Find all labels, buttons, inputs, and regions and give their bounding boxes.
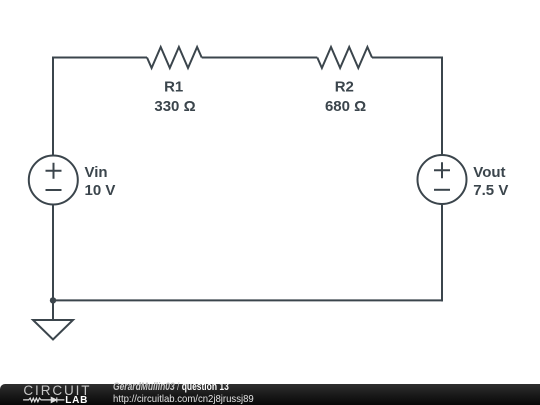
CircuitLab logo wordmark bbox=[23, 384, 91, 398]
ground bbox=[33, 320, 73, 340]
svg-text:7.5 V: 7.5 V bbox=[473, 182, 508, 199]
voltage source V2 Vout bbox=[418, 155, 467, 204]
wire bottom bbox=[53, 299, 443, 301]
wire left upper bbox=[52, 57, 54, 156]
footer bar bbox=[0, 384, 540, 405]
junction node bbox=[50, 297, 56, 303]
footer line 1 bbox=[113, 382, 229, 393]
svg-text:R2: R2 bbox=[335, 79, 354, 96]
wire top-right segment bbox=[372, 57, 442, 59]
logo resistor-diode squiggle bbox=[22, 394, 68, 405]
wire top-left segment bbox=[53, 57, 147, 59]
svg-text:R1: R1 bbox=[164, 79, 183, 96]
svg-text:10 V: 10 V bbox=[85, 182, 116, 199]
wire right upper bbox=[441, 57, 443, 156]
svg-text:330 Ω: 330 Ω bbox=[154, 98, 195, 115]
logo LAB text bbox=[65, 396, 88, 405]
svg-text:680 Ω: 680 Ω bbox=[325, 98, 366, 115]
svg-text:Vin: Vin bbox=[85, 164, 108, 181]
voltage source V1 Vin bbox=[29, 156, 78, 205]
footer line 2 bbox=[113, 394, 254, 405]
resistor R2 bbox=[317, 47, 372, 68]
ground stub wire bbox=[52, 300, 54, 320]
resistor R1 bbox=[147, 47, 202, 68]
svg-text:Vout: Vout bbox=[473, 164, 505, 181]
wire left lower bbox=[52, 204, 54, 300]
wire right lower bbox=[441, 204, 443, 302]
wire top-middle segment bbox=[202, 57, 318, 59]
